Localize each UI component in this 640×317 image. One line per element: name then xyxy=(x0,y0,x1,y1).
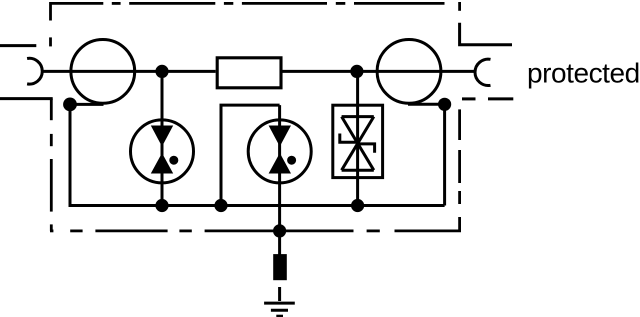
device enclosure (dashed boundary) bottom edge / earth line xyxy=(50,229,461,232)
node: junction dot left tap xyxy=(63,98,77,112)
device enclosure (dashed boundary) left edge xyxy=(49,2,53,231)
direct earthing terminal (filled rectangle) xyxy=(273,254,287,280)
node: junction dot GDT F1 / bus xyxy=(155,199,168,212)
wire: protected line exit bottom-right (dashed) xyxy=(462,97,513,100)
wire: residual current bus xyxy=(70,204,445,207)
wire: branch through GDT F2 down to earth line xyxy=(278,105,281,231)
node: junction dot right tap xyxy=(438,98,451,111)
suppressor diode V1 upper bar xyxy=(342,115,374,118)
wire: tap from bottom of Z1 to left down-conductor xyxy=(70,103,104,106)
suppressor diode V1 lower bar xyxy=(342,169,374,172)
line decoupling element Z2 (circle on main line, right) xyxy=(377,40,441,104)
suppressor diode V1 enclosure box xyxy=(333,105,383,177)
gas discharge tube F1 upper electrode (filled down arrow) xyxy=(151,126,173,147)
wire: earth conductor below enclosure xyxy=(278,231,281,255)
gas discharge tube F2 upper electrode (filled down arrow) xyxy=(269,126,291,147)
node: junction dot earth conductor / enclosure earth line xyxy=(273,224,286,237)
gas discharge tube F1 lower electrode (filled up arrow) xyxy=(151,153,173,174)
device enclosure (dashed boundary) top edge xyxy=(51,2,445,5)
suppressor diode V1 crossed junction diagonals xyxy=(342,117,374,171)
wire: hook from bus up and over to top of GDT F2 xyxy=(221,105,280,205)
node: junction dot main line / suppressor diode branch xyxy=(350,65,363,78)
gas discharge tube F1 gas-filled indicator dot xyxy=(169,156,178,165)
svg-text:protected: protected xyxy=(527,58,640,89)
node: junction dot F2 hook / bus xyxy=(214,199,227,212)
wire: protected line exit top-right xyxy=(460,23,512,45)
wire: tap from bottom of Z2 to right down-conductor xyxy=(408,103,445,106)
wire: main line from resistor to output terminal through right line element xyxy=(283,70,476,73)
wire: main line from input terminal through line element to resistor xyxy=(42,70,216,73)
wire: left down-conductor to residual bus xyxy=(70,104,72,205)
wire: right down-conductor to residual bus xyxy=(443,104,446,205)
line decoupling element Z1 (circle on main line, left) xyxy=(71,40,135,104)
wire: unprotected line bottom-left into enclosure corner xyxy=(0,97,53,100)
gas discharge tube F1 (circle) xyxy=(131,120,194,183)
wire: stub from earthing terminal to ground symbol xyxy=(278,287,281,301)
node: junction dot suppressor diode / bus xyxy=(351,199,364,212)
wire: branch from main line down through GDT F1 to bus xyxy=(161,71,164,205)
resistor R1 (series decoupling resistor) xyxy=(217,58,281,88)
wire: unprotected line stub top-left xyxy=(0,44,36,47)
suppressor diode V1 zener bar left with hook xyxy=(340,134,358,143)
gas discharge tube F2 gas-filled indicator dot xyxy=(287,156,296,165)
gas discharge tube F2 (circle) xyxy=(248,120,311,183)
node: junction dot main line / GDT F1 branch xyxy=(155,65,168,78)
wire: branch from main line down through suppressor diode to bus xyxy=(356,71,359,205)
terminal contact arc (protected side) xyxy=(475,59,490,85)
ground (earth symbol, three bars) xyxy=(264,303,295,316)
device enclosure (dashed boundary) right edge xyxy=(458,2,461,231)
terminal contact arc (unprotected side) xyxy=(27,58,42,84)
suppressor diode V1 zener bar right with hook xyxy=(358,144,375,153)
gas discharge tube F2 lower electrode (filled up arrow) xyxy=(269,153,291,174)
